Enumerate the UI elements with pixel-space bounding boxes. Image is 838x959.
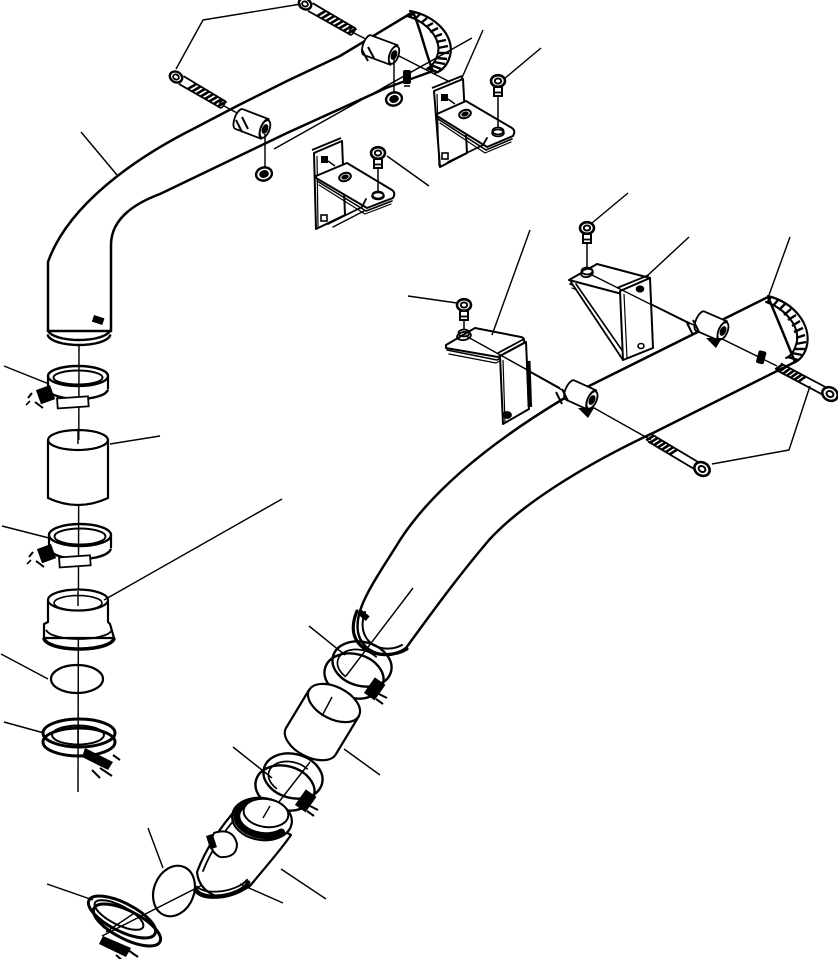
- notch under mount M3: [706, 338, 722, 348]
- bolt A (long mounting bolt): [297, 0, 357, 36]
- leader to tube T1: [104, 499, 282, 600]
- mount M1 (rubber cushion): [362, 35, 401, 65]
- hose H1 (connector hose): [48, 429, 108, 505]
- leader to hose H2: [344, 749, 380, 775]
- leader to clamp K2: [2, 526, 49, 538]
- nut N1: [385, 91, 404, 108]
- bracket BR3 (pipe hanger bracket): [446, 328, 532, 424]
- leader at elbow flange: [240, 884, 283, 903]
- clamp V1 (V-band clamp): [43, 719, 120, 778]
- clamp V2 (V-band clamp): [83, 888, 167, 959]
- thread ticks at mount M4: [556, 389, 568, 404]
- elbow pipe E1 (exhaust elbow connector): [196, 794, 295, 897]
- leader to bolt of BR2: [504, 48, 541, 79]
- bolt E for bracket BR4: [580, 222, 594, 274]
- tube T1 (connector tube): [44, 590, 114, 650]
- leader to hose H1: [110, 436, 160, 444]
- tick on pipe P2 end: [358, 610, 370, 621]
- thread ticks at mount M1: [362, 47, 374, 61]
- leader to clamp K1: [4, 366, 49, 384]
- assembly axis through mount M4 to bolt C: [466, 336, 651, 440]
- axis stub mount M2 to nut N2: [264, 134, 266, 167]
- notch under mount M4: [578, 408, 594, 418]
- leader to bolt E: [592, 193, 628, 223]
- nut N2: [255, 166, 274, 183]
- mount M4 (rubber cushion): [564, 380, 600, 410]
- centerline stub in clamp V1: [77, 726, 79, 748]
- bolt F for bracket BR3: [456, 299, 471, 341]
- leader to clamp V1: [4, 722, 44, 733]
- leader to bolt of BR1: [387, 156, 429, 186]
- bolt B (long mounting bolt): [168, 69, 239, 114]
- leader to clamp V2: [47, 884, 93, 900]
- V leader to bolts C and D: [712, 386, 810, 464]
- leader to bracket BR2: [461, 30, 483, 80]
- assembly axis overdraw at bracket BR3: [466, 336, 560, 388]
- thread ticks at mount M2: [236, 117, 248, 132]
- bolt for bracket BR1: [371, 147, 385, 199]
- hose H2 (connector hose): [285, 676, 366, 760]
- leader to clamp K4: [309, 626, 345, 655]
- leader to bracket BR4: [647, 237, 689, 276]
- bolt axis line through mount M1: [352, 32, 450, 82]
- leader to elbow E1: [281, 869, 326, 899]
- pipe P1 (left exhaust elbow pipe): [48, 11, 451, 331]
- chain axis from pipe P2 through clamp K4: [346, 588, 413, 676]
- clamp K3 (hose clamp): [250, 747, 327, 817]
- mount M3 (rubber cushion): [694, 311, 730, 341]
- chain axis at elbow outlet: [102, 872, 228, 936]
- diagonal axis line: [274, 38, 472, 149]
- clamp K2 (hose clamp): [27, 524, 111, 567]
- clamp K1 (hose clamp): [26, 366, 108, 408]
- pin P1 on pipe P1: [403, 70, 411, 86]
- weld tab on pipe P1: [92, 315, 105, 325]
- leader to gasket G2: [148, 828, 163, 868]
- centerline stub in clamp V2: [106, 914, 133, 932]
- pipe P2 (right exhaust pipe): [353, 296, 807, 655]
- pin P2 on pipe P2: [756, 350, 767, 365]
- bracket BR1 (pipe mounting L-bracket): [312, 138, 394, 229]
- leader to gasket G1: [1, 654, 48, 679]
- chain axis segment at clamp K3: [268, 762, 310, 816]
- centerline of left fitting stack: [78, 345, 79, 792]
- assembly axis overdraw at bracket BR4: [592, 275, 690, 324]
- axis stub mount M1 to nut N1: [393, 58, 395, 92]
- leader line to pipe P1: [81, 132, 117, 175]
- gasket G1 (seal ring): [51, 665, 103, 693]
- leader to bolt F: [408, 296, 457, 303]
- assembly axis through mount M3 to bolt D: [592, 275, 777, 366]
- bracket BR2 (pipe mounting L-bracket): [432, 76, 514, 167]
- clamp K4 (hose clamp): [319, 635, 396, 705]
- bracket BR4 (gusseted hanger bracket): [569, 264, 653, 360]
- leader to bracket BR3: [492, 230, 530, 335]
- V leader to bolts A and B: [176, 4, 301, 69]
- bolt C (long mounting bolt): [646, 435, 712, 479]
- pipe P1 bottom flange: [48, 262, 111, 345]
- thread ticks at mount M3: [687, 320, 699, 335]
- bolt for bracket BR2: [491, 75, 505, 136]
- mount M2 (rubber cushion): [233, 109, 272, 139]
- leader to clamp K3: [233, 747, 272, 778]
- bolt D (long mounting bolt): [775, 363, 838, 403]
- gasket G2 (seal ring): [146, 859, 203, 922]
- leader to pipe P2: [769, 237, 790, 295]
